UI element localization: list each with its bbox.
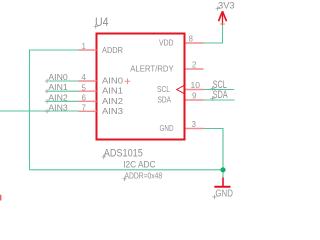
- pin 1 ADDR stub: [79, 49, 97, 51]
- svg-text:ADDR=0x48: ADDR=0x48: [125, 171, 163, 181]
- value label ADS1015: [104, 148, 143, 160]
- pin 3 name GND: [160, 123, 174, 133]
- pin 6 AIN2 stub: [79, 100, 97, 102]
- svg-text:10: 10: [191, 81, 201, 90]
- pin 2 number: [192, 61, 197, 70]
- net label AIN2: [45, 92, 68, 103]
- pin 3 number: [192, 120, 197, 129]
- svg-text:7: 7: [82, 104, 87, 113]
- ground symbol GND: [214, 178, 230, 187]
- pin 10 number: [191, 81, 201, 90]
- wire net AIN1: [47, 90, 79, 92]
- svg-text:ALERT/RDY: ALERT/RDY: [130, 64, 174, 74]
- pin 9 name SDA: [158, 95, 172, 105]
- svg-text:3: 3: [192, 120, 197, 129]
- svg-text:SDA: SDA: [213, 89, 228, 101]
- partial red mark at left edge (clipped ground bar): [0, 195, 1, 201]
- pin 4 name AIN0: [102, 76, 123, 86]
- wire net AIN2: [47, 100, 79, 102]
- power label 3V3: [216, 0, 235, 10]
- svg-text:AIN1: AIN1: [48, 82, 68, 92]
- svg-text:AIN0: AIN0: [48, 72, 68, 82]
- wire GND junction to ground symbol: [222, 170, 224, 178]
- svg-text:I2C ADC: I2C ADC: [123, 160, 156, 170]
- svg-text:4: 4: [82, 73, 87, 82]
- pin 2 name ALERT/RDY: [130, 64, 174, 74]
- wire net ADDR bottom horizontal to junction: [30, 169, 224, 171]
- refdes U4 origin cross: [94, 24, 99, 29]
- svg-text:3V3: 3V3: [218, 0, 235, 10]
- pin 7 AIN3 stub: [79, 110, 97, 112]
- power symbol 3V3 arrow: [219, 11, 227, 25]
- pin 8 name VDD: [159, 38, 174, 48]
- pin 9 number: [192, 92, 197, 101]
- svg-text:AIN2: AIN2: [102, 96, 123, 106]
- ground label GND: [212, 188, 233, 200]
- svg-text:5: 5: [82, 83, 87, 92]
- svg-text:8: 8: [189, 35, 194, 44]
- svg-text:6: 6: [82, 94, 87, 103]
- svg-text:AIN2: AIN2: [48, 92, 68, 102]
- pin 8 number: [189, 35, 194, 44]
- wire net GND from pin 3 right then down to junction: [204, 129, 224, 170]
- wire net ADDR from pin 1 left then down: [30, 50, 79, 170]
- svg-text:GND: GND: [215, 188, 233, 200]
- svg-text:2: 2: [192, 61, 197, 70]
- svg-text:SDA: SDA: [158, 95, 172, 105]
- svg-text:9: 9: [192, 92, 197, 101]
- pin 4 AIN0 stub: [79, 80, 97, 82]
- pin 4 number: [82, 73, 87, 82]
- svg-text:AIN3: AIN3: [102, 106, 123, 116]
- svg-text:U4: U4: [95, 17, 109, 29]
- svg-text:AIN0: AIN0: [102, 76, 123, 86]
- svg-text:GND: GND: [160, 123, 174, 133]
- svg-text:ADS1015: ADS1015: [104, 148, 143, 160]
- refdes U4: [95, 17, 109, 29]
- pin 6 number: [82, 94, 87, 103]
- svg-text:1: 1: [82, 42, 87, 51]
- pin 9 SDA stub: [186, 99, 204, 101]
- wire net AIN0: [47, 80, 79, 82]
- comment text I2C ADC: [123, 160, 156, 170]
- pin 5 name AIN1: [102, 86, 123, 96]
- IC U4 ADS1015 body: [97, 34, 185, 140]
- pin 5 AIN1 stub: [79, 90, 97, 92]
- pin 7 name AIN3: [102, 106, 123, 116]
- pin 6 name AIN2: [102, 96, 123, 106]
- pin 1 name ADDR: [102, 45, 123, 55]
- net label AIN3: [45, 102, 68, 113]
- comment text ADDR=0x48: [125, 171, 163, 181]
- pin 3 GND stub: [186, 128, 204, 130]
- wire net SDA: [204, 99, 235, 101]
- svg-text:VDD: VDD: [159, 38, 174, 48]
- pin 10 name SCL: [157, 84, 170, 94]
- symbol origin cross red inside IC: [125, 78, 131, 84]
- wire net AIN3: [0, 110, 79, 112]
- wire net 3V3 from pin 8: [204, 25, 223, 43]
- junction dot: [220, 167, 225, 172]
- net label SDA: [210, 89, 228, 101]
- svg-text:AIN3: AIN3: [48, 102, 68, 112]
- pin 10 clock arrow: [177, 86, 184, 94]
- comment text origin cross: [122, 177, 126, 181]
- svg-text:SCL: SCL: [157, 84, 170, 94]
- pin 2 ALERT/RDY stub: [186, 68, 204, 70]
- net label AIN0: [45, 72, 68, 83]
- svg-text:ADDR: ADDR: [102, 45, 123, 55]
- value label origin cross: [102, 155, 107, 160]
- net label AIN1: [45, 82, 68, 93]
- pin 7 number: [82, 104, 87, 113]
- wire net SCL: [204, 89, 235, 91]
- net label SCL: [210, 79, 226, 91]
- pin 5 number: [82, 83, 87, 92]
- pin 1 number: [82, 42, 87, 51]
- svg-text:AIN1: AIN1: [102, 86, 123, 96]
- pin 8 VDD stub: [186, 42, 204, 44]
- pin 10 SCL stub: [186, 89, 204, 91]
